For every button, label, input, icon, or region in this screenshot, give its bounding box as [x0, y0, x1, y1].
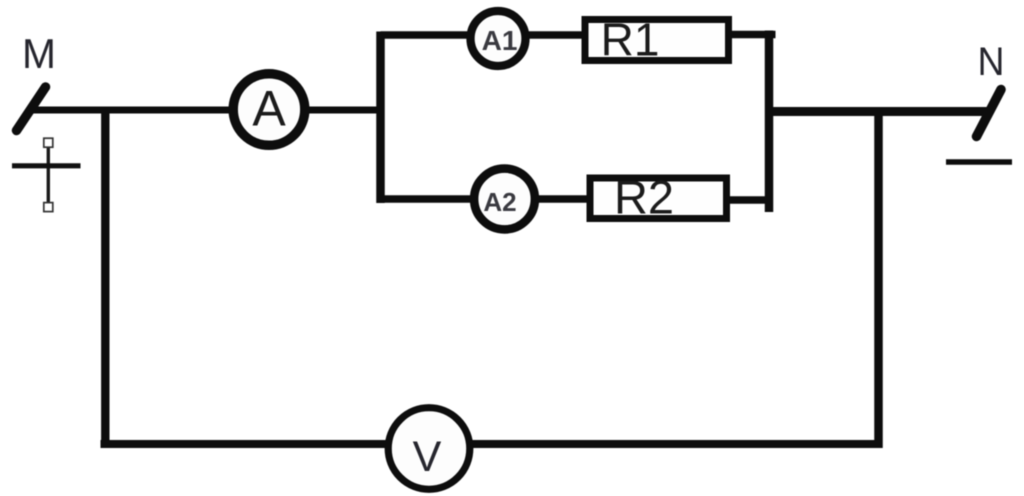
switch blade at M — [17, 87, 46, 131]
svg-text:A1: A1 — [482, 25, 518, 56]
wire: R1 to right vertical — [728, 31, 776, 39]
svg-text:R1: R1 — [601, 14, 660, 66]
crosshair bottom handle square — [44, 203, 53, 212]
wire: junction vertical between branches — [376, 32, 385, 204]
svg-text:R2: R2 — [614, 171, 674, 224]
resistor R2 — [590, 178, 727, 219]
wire: bottom voltmeter run — [101, 440, 879, 448]
svg-text:A: A — [252, 81, 286, 137]
wire: right parallel-bus vertical — [765, 31, 774, 213]
crosshair top handle square — [44, 138, 53, 147]
svg-text:A2: A2 — [483, 187, 516, 217]
crosshair cursor vertical line — [47, 143, 50, 207]
wire: R2 to right vertical — [728, 196, 773, 204]
switch blade at N — [977, 90, 1002, 137]
wire: run to terminal N — [769, 107, 991, 116]
crosshair cursor horizontal line — [12, 163, 81, 168]
ammeter A — [233, 74, 305, 146]
ammeter A1 — [471, 11, 526, 66]
wire: bottom branch to A2 and R2 — [381, 195, 591, 203]
wire: left vertical drop to voltmeter loop — [101, 107, 109, 449]
ammeter A2 — [474, 169, 535, 230]
voltmeter V — [388, 408, 470, 490]
svg-text:V: V — [413, 433, 442, 481]
switch contact dash at N — [946, 159, 1012, 165]
svg-text:M: M — [22, 30, 56, 77]
wire: top branch to A1 and R1 — [381, 31, 586, 39]
resistor R1 — [585, 20, 729, 61]
wire: main top run from M to parallel junction — [28, 107, 384, 114]
svg-text:N: N — [978, 40, 1005, 84]
wire: right vertical drop to voltmeter loop — [874, 108, 883, 448]
